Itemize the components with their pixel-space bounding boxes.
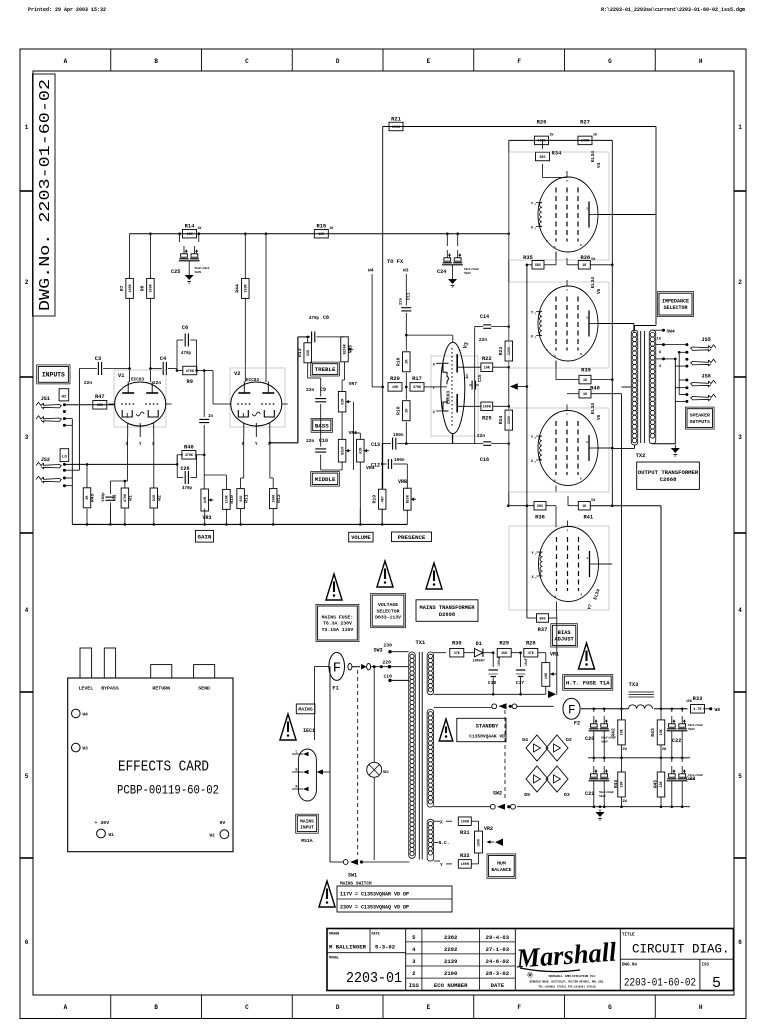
tube V1 ECC83 xyxy=(109,382,172,448)
svg-text:470K: 470K xyxy=(124,493,128,502)
svg-text:100R: 100R xyxy=(477,839,481,847)
pot VR5 xyxy=(341,337,354,362)
svg-text:22n: 22n xyxy=(84,380,93,386)
svg-text:D: D xyxy=(336,1004,340,1011)
resistor R40 xyxy=(579,386,600,398)
wire plate to tube V2 xyxy=(244,298,246,382)
resistor R1 xyxy=(121,488,133,508)
drawing number box xyxy=(33,74,56,316)
ground xyxy=(671,445,680,456)
svg-text:50uF+50uF: 50uF+50uF xyxy=(195,267,210,270)
wire R18 to C13 xyxy=(405,422,408,445)
resistor R36 screen xyxy=(507,501,556,527)
svg-text:PRESENCE: PRESENCE xyxy=(398,534,426,541)
resistor R29 xyxy=(497,641,511,657)
svg-text:VR2: VR2 xyxy=(484,826,493,832)
svg-text:LEVEL: LEVEL xyxy=(78,686,93,692)
svg-text:5: 5 xyxy=(554,355,556,358)
switch SW2 upper xyxy=(434,703,554,709)
svg-text:100K: 100K xyxy=(129,283,133,292)
svg-text:B25K: B25K xyxy=(341,446,345,455)
label H.T. FUSE T1A xyxy=(563,675,613,691)
resistor R42 xyxy=(611,709,628,758)
svg-text:W4: W4 xyxy=(83,713,89,718)
resistor R29 xyxy=(492,641,522,657)
svg-text:R25: R25 xyxy=(482,415,492,421)
capacitor C12 xyxy=(388,459,391,469)
svg-text:4K7: 4K7 xyxy=(381,496,385,502)
svg-text:D2698: D2698 xyxy=(439,612,455,618)
module box tube V5 xyxy=(509,282,609,368)
label BIAS ADJUST xyxy=(551,624,578,647)
svg-text:22n: 22n xyxy=(306,387,315,393)
svg-text:R24: R24 xyxy=(498,416,504,425)
svg-text:DATE: DATE xyxy=(491,982,505,989)
svg-text:16: 16 xyxy=(656,338,661,342)
svg-text:A1M: A1M xyxy=(360,448,364,454)
svg-text:R26: R26 xyxy=(537,119,547,125)
effects card tab labels xyxy=(78,686,210,692)
svg-text:VOLUME: VOLUME xyxy=(351,535,371,541)
svg-text:R46: R46 xyxy=(184,444,194,450)
svg-text:DRAWN: DRAWN xyxy=(329,933,339,937)
svg-text:C20: C20 xyxy=(585,736,594,742)
svg-text:SEND: SEND xyxy=(198,686,210,692)
svg-text:V1: V1 xyxy=(118,373,124,379)
svg-text:N.C.: N.C. xyxy=(439,840,450,846)
ground xyxy=(448,276,457,287)
pot VR6 xyxy=(338,439,351,462)
svg-text:C4: C4 xyxy=(160,356,167,362)
capacitor C21 xyxy=(585,758,614,807)
label PRESENCE xyxy=(392,532,432,542)
wire selector to jacks xyxy=(664,343,689,444)
resistor R32 xyxy=(458,853,478,868)
wire right rail from R21 wire xyxy=(655,127,657,326)
svg-text:5: 5 xyxy=(25,773,29,780)
resistor R47 xyxy=(93,394,107,409)
svg-text:R22: R22 xyxy=(482,356,492,362)
svg-text:10K: 10K xyxy=(318,233,325,237)
label OUTPUT TRANSFORMER xyxy=(637,462,700,489)
ground xyxy=(185,272,194,283)
svg-text:V6: V6 xyxy=(597,414,602,420)
svg-text:D5: D5 xyxy=(524,792,530,798)
svg-text:Y: Y xyxy=(440,862,443,868)
svg-text:JS2: JS2 xyxy=(41,457,50,463)
wire W3 C11 to V3 xyxy=(400,292,453,351)
ground xyxy=(596,809,605,820)
selector SW3 xyxy=(374,643,409,683)
svg-text:1n: 1n xyxy=(466,374,470,379)
svg-text:MS1A: MS1A xyxy=(301,838,313,844)
resistor R11 xyxy=(237,489,250,509)
svg-text:C24: C24 xyxy=(437,269,446,275)
svg-text:R20: R20 xyxy=(390,376,400,382)
svg-text:100R: 100R xyxy=(461,863,470,867)
wire screen feed top xyxy=(509,139,613,141)
resistor R33 xyxy=(691,696,705,713)
node W3 card xyxy=(72,743,89,752)
capacitor C8 xyxy=(312,331,315,342)
capacitor C20 xyxy=(585,716,616,744)
wire bus presence xyxy=(382,510,407,525)
svg-text:C11: C11 xyxy=(408,292,412,300)
svg-text:470K: 470K xyxy=(186,370,195,374)
svg-text:EL34: EL34 xyxy=(590,277,596,288)
svg-text:8: 8 xyxy=(580,353,582,356)
svg-text:EL34: EL34 xyxy=(590,403,596,414)
tube V3 ECC83 xyxy=(433,335,470,444)
label MAINS SWITCH xyxy=(337,882,452,913)
resistor R43 xyxy=(650,709,667,758)
svg-text:3: 3 xyxy=(587,557,589,560)
svg-text:100K: 100K xyxy=(483,406,492,410)
warning triangle xyxy=(280,714,296,740)
wire R21 down to FX xyxy=(382,127,384,489)
resistor R44b xyxy=(618,772,626,797)
svg-text:ISS: ISS xyxy=(409,982,420,989)
svg-text:100n: 100n xyxy=(394,458,405,463)
svg-text:M BALLINGER: M BALLINGER xyxy=(329,944,367,951)
grid row ticks xyxy=(20,191,746,858)
wire input lower xyxy=(64,463,177,465)
svg-text:5K6: 5K6 xyxy=(535,264,541,268)
label VOLUME xyxy=(349,532,373,542)
svg-text:10K: 10K xyxy=(545,672,549,679)
svg-text:1n: 1n xyxy=(208,415,214,419)
svg-text:10K: 10K xyxy=(186,233,193,237)
capacitor C1 xyxy=(102,481,118,524)
warning triangle xyxy=(319,881,335,907)
svg-text:470p: 470p xyxy=(182,487,193,491)
node W4 card xyxy=(72,709,89,718)
svg-text:ISS: ISS xyxy=(702,964,710,968)
svg-text:CIRCUIT DIAG.: CIRCUIT DIAG. xyxy=(632,943,730,957)
resistor R7 xyxy=(119,278,134,298)
svg-text:3: 3 xyxy=(586,208,588,211)
svg-text:C22: C22 xyxy=(672,738,681,744)
svg-text:TO FX: TO FX xyxy=(387,259,404,265)
svg-text:1M: 1M xyxy=(406,409,410,413)
svg-text:2: 2 xyxy=(25,279,29,286)
resistor R30 xyxy=(450,641,464,657)
svg-text:C17: C17 xyxy=(516,680,525,686)
resistor R44 bleeder xyxy=(614,758,628,807)
svg-text:R13: R13 xyxy=(297,348,303,357)
svg-text:VOLTAGE: VOLTAGE xyxy=(378,602,398,608)
svg-text:SW4: SW4 xyxy=(667,329,676,335)
svg-text:R45: R45 xyxy=(90,493,96,502)
svg-text:100K: 100K xyxy=(392,126,401,130)
svg-text:JS5: JS5 xyxy=(702,337,711,343)
capacitor C20 xyxy=(585,709,616,758)
svg-text:R28: R28 xyxy=(526,641,536,647)
svg-text:VR1: VR1 xyxy=(550,652,559,658)
wire HT rail xyxy=(581,708,688,711)
capacitor C21 xyxy=(585,766,614,798)
wire TX1 heater taps xyxy=(434,820,452,869)
wire bias winding xyxy=(434,652,446,654)
svg-text:2382: 2382 xyxy=(444,934,458,941)
capacitor C4 with label xyxy=(149,356,177,386)
grid row numbers xyxy=(25,124,743,946)
resistor R41 screen xyxy=(568,496,661,521)
pot VR3 xyxy=(201,489,214,521)
svg-text:VR5: VR5 xyxy=(348,345,354,354)
svg-text:OUTPUT TRANSFORMER: OUTPUT TRANSFORMER xyxy=(638,469,699,476)
svg-text:117V = C1353VQNAR VD DP: 117V = C1353VQNAR VD DP xyxy=(340,892,409,898)
label MAINS TRANSFORMER xyxy=(416,600,478,622)
svg-text:VR7: VR7 xyxy=(349,381,358,387)
svg-text:GAIN: GAIN xyxy=(198,533,212,540)
resistor R39 xyxy=(579,368,591,384)
svg-text:C1350VQAAK VD: C1350VQAAK VD xyxy=(469,734,505,740)
title block xyxy=(327,929,734,991)
resistor R46 with C26 xyxy=(176,444,206,491)
wire jack link xyxy=(78,369,80,471)
svg-text:Ⓜ: Ⓜ xyxy=(527,972,532,979)
wire lamp feed xyxy=(373,667,375,763)
svg-text:1M: 1M xyxy=(406,360,410,364)
svg-text:220K: 220K xyxy=(508,415,512,424)
svg-text:C26: C26 xyxy=(180,466,189,472)
svg-text:820: 820 xyxy=(240,496,244,502)
svg-text:5: 5 xyxy=(554,246,556,249)
svg-text:SW1: SW1 xyxy=(348,873,357,879)
svg-text:R44: R44 xyxy=(614,780,619,788)
resistor R20 xyxy=(372,386,384,389)
svg-text:R45: R45 xyxy=(653,780,658,788)
resistor R9 with C6 bypass xyxy=(176,325,205,385)
resistor R32 xyxy=(458,853,471,868)
svg-text:A1M: A1M xyxy=(341,399,345,405)
svg-text:8: 8 xyxy=(580,244,582,247)
svg-text:R32: R32 xyxy=(460,853,470,859)
svg-text:R16: R16 xyxy=(396,357,402,366)
capacitor C9 xyxy=(315,399,326,402)
svg-text:DWG.No: DWG.No xyxy=(622,964,638,968)
capacitor C13 xyxy=(393,438,396,450)
grid column dividers xyxy=(111,49,656,1019)
svg-text:SELECTOR: SELECTOR xyxy=(663,305,687,311)
resistor R45b xyxy=(657,772,665,797)
capacitor C13 xyxy=(371,433,452,450)
svg-text:C18: C18 xyxy=(488,680,497,686)
label MAINS xyxy=(296,704,315,714)
svg-text:110: 110 xyxy=(383,674,392,680)
svg-text:R37: R37 xyxy=(538,627,548,633)
capacitor C17 xyxy=(516,653,528,695)
svg-text:2100: 2100 xyxy=(444,970,458,977)
svg-text:R29: R29 xyxy=(499,641,509,647)
resistor R23 xyxy=(498,341,513,361)
svg-text:15K: 15K xyxy=(501,652,508,656)
svg-text:R40: R40 xyxy=(590,386,600,392)
svg-text:R47: R47 xyxy=(95,394,105,400)
resistor R13 xyxy=(306,336,309,343)
svg-text:BIAS: BIAS xyxy=(558,630,572,636)
svg-text:100R: 100R xyxy=(461,821,470,825)
svg-text:C: C xyxy=(245,58,249,65)
svg-text:B25K: B25K xyxy=(407,494,411,503)
choke TX3 xyxy=(629,682,655,709)
resistor R43 xyxy=(650,720,665,745)
resistor R14 xyxy=(183,224,202,238)
svg-text:47K: 47K xyxy=(454,652,461,656)
svg-text:A: A xyxy=(64,1004,68,1011)
capacitor C6 xyxy=(185,334,188,347)
svg-text:B: B xyxy=(154,58,158,65)
capacitor C26 xyxy=(185,471,188,484)
svg-text:TX3: TX3 xyxy=(629,682,639,688)
warning triangle xyxy=(377,561,393,587)
wire B+ rail xyxy=(130,233,509,235)
wire cathode follower to tone stack xyxy=(270,337,310,443)
module box tube V4 xyxy=(509,152,609,260)
svg-text:TX1: TX1 xyxy=(416,640,426,646)
connector IEC1 xyxy=(292,728,330,801)
svg-text:2203-01-60-02: 2203-01-60-02 xyxy=(624,978,696,990)
svg-text:R31: R31 xyxy=(460,830,470,836)
svg-text:820: 820 xyxy=(153,495,157,501)
svg-text:500V: 500V xyxy=(195,271,202,274)
svg-text:PCBP-00119-60-02: PCBP-00119-60-02 xyxy=(117,784,219,798)
svg-text:D4: D4 xyxy=(522,737,528,743)
label STANDBY xyxy=(457,718,506,741)
svg-text:1N4007: 1N4007 xyxy=(473,660,485,664)
svg-text:X: X xyxy=(440,820,443,826)
svg-text:2139: 2139 xyxy=(444,958,458,965)
capacitor C8 xyxy=(309,315,345,342)
lamp neon xyxy=(367,762,389,860)
capacitor C11 xyxy=(401,308,411,311)
svg-text:SPEAKER: SPEAKER xyxy=(690,413,710,419)
svg-text:RETURN: RETURN xyxy=(152,686,170,692)
svg-text:B: B xyxy=(154,1004,158,1011)
svg-text:C15: C15 xyxy=(479,374,483,382)
resistor R25 xyxy=(481,402,493,421)
svg-text:F: F xyxy=(517,58,521,65)
svg-text:C9: C9 xyxy=(320,387,326,393)
resistor R16 xyxy=(396,352,411,372)
capacitor C12 xyxy=(371,444,407,489)
resistor R20 xyxy=(388,376,402,391)
capacitor C15 xyxy=(466,367,483,389)
capacitor C23 xyxy=(667,766,704,782)
capacitor C22 xyxy=(667,716,704,744)
svg-text:C6: C6 xyxy=(182,325,188,331)
label INPUTS xyxy=(37,365,70,384)
svg-text:7: 7 xyxy=(566,414,568,417)
svg-text:4: 4 xyxy=(738,607,742,614)
svg-text:+ 30V: + 30V xyxy=(95,820,110,826)
svg-text:1: 1 xyxy=(738,124,742,131)
svg-text:JS6: JS6 xyxy=(702,374,711,380)
resistor R45 xyxy=(83,488,96,508)
svg-text:C8: C8 xyxy=(323,315,329,321)
jack JS5 xyxy=(691,337,716,366)
svg-text:1: 1 xyxy=(546,240,548,243)
wire V2 cathodes xyxy=(241,437,274,488)
svg-text:R42: R42 xyxy=(611,728,617,737)
svg-text:MIDDLE: MIDDLE xyxy=(315,476,336,483)
svg-text:D3: D3 xyxy=(564,792,570,798)
transformer TX2 xyxy=(611,326,656,460)
resistor R15 xyxy=(314,224,333,238)
transformer TX1 xyxy=(409,640,434,861)
ground below C25 xyxy=(188,261,190,272)
svg-text:28-3-02: 28-3-02 xyxy=(486,970,510,977)
svg-text:R34: R34 xyxy=(552,151,562,157)
resistor R18 xyxy=(396,401,411,421)
diode D1 xyxy=(464,641,493,664)
resistor R35 screen xyxy=(523,252,556,270)
svg-text:SELECTOR: SELECTOR xyxy=(377,608,400,614)
svg-text:1: 1 xyxy=(25,124,29,131)
svg-text:R33: R33 xyxy=(693,696,703,702)
wire bias return xyxy=(434,691,556,699)
pot VR7 xyxy=(338,391,351,412)
resistor R44 xyxy=(235,278,250,298)
resistor R40 screen xyxy=(567,385,622,398)
capacitor C24 xyxy=(446,234,448,246)
svg-text:LO: LO xyxy=(62,456,67,460)
resistor R33 xyxy=(686,696,720,713)
svg-text:R41: R41 xyxy=(583,515,593,521)
svg-text:E: E xyxy=(427,58,431,65)
pot VR2 hum balance xyxy=(475,826,504,853)
svg-text:5W: 5W xyxy=(591,498,595,502)
svg-text:A: A xyxy=(64,58,68,65)
svg-text:10K: 10K xyxy=(484,367,491,371)
svg-text:51uF+50uF: 51uF+50uF xyxy=(688,774,703,777)
wire bias node xyxy=(405,373,408,400)
svg-text:V4: V4 xyxy=(597,162,602,168)
pot VR4 xyxy=(357,439,370,462)
tube V7 EL34 xyxy=(532,521,601,608)
svg-text:MAINS: MAINS xyxy=(300,818,314,824)
tube V5 EL34 xyxy=(531,280,600,367)
svg-text:R:\2203-01_2203sw\current\2203: R:\2203-01_2203sw\current\2203-01-60-02_… xyxy=(601,7,745,13)
svg-text:SW3: SW3 xyxy=(374,648,383,654)
svg-text:F: F xyxy=(333,661,341,677)
svg-text:D1: D1 xyxy=(476,641,482,647)
svg-text:100n: 100n xyxy=(393,433,404,438)
svg-text:6: 6 xyxy=(738,939,742,946)
svg-text:56K: 56K xyxy=(307,349,311,356)
svg-text:ECO NUMBER: ECO NUMBER xyxy=(434,982,468,989)
resistor R34 xyxy=(536,151,563,161)
tube V4 EL34 xyxy=(531,171,600,258)
wire grid bus xyxy=(508,264,528,619)
wire R7 drop xyxy=(129,234,131,279)
capacitor C10 xyxy=(315,449,326,452)
effects card tabs xyxy=(80,648,215,678)
svg-text:100K: 100K xyxy=(245,283,249,292)
wire R21 feed xyxy=(383,126,656,128)
wire right block rail xyxy=(611,140,613,505)
resistor R35 xyxy=(523,255,544,269)
svg-text:R43: R43 xyxy=(650,728,656,737)
label MAINS INPUT xyxy=(296,814,319,833)
svg-text:T6.3A 230V: T6.3A 230V xyxy=(323,621,352,627)
resistor R37 xyxy=(537,614,549,633)
capacitor C7 xyxy=(199,419,209,422)
svg-text:A1M: A1M xyxy=(204,497,208,503)
svg-text:10K: 10K xyxy=(660,780,664,787)
capacitor C24 xyxy=(437,250,479,275)
